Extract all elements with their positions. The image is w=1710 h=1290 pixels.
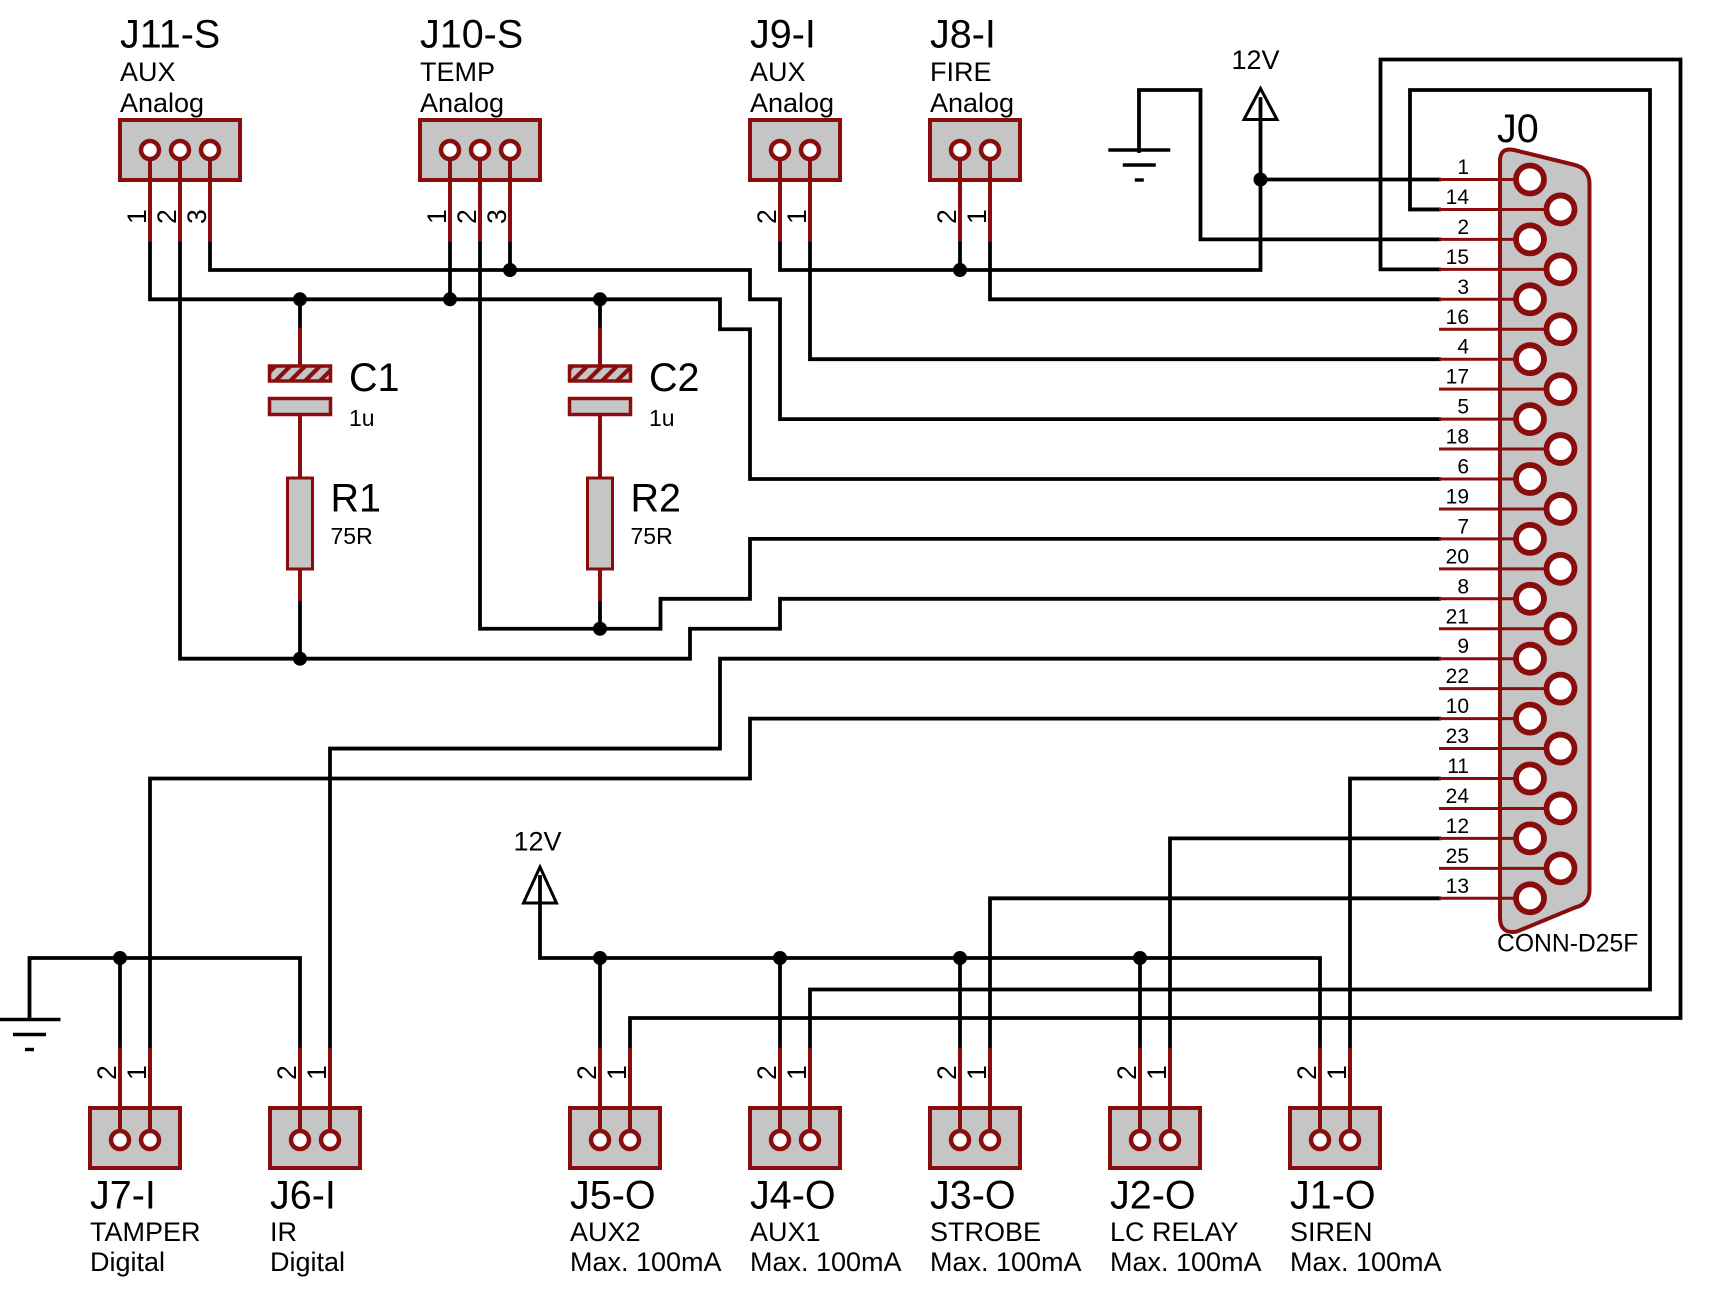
svg-text:J9-I: J9-I bbox=[750, 13, 816, 57]
svg-text:R2: R2 bbox=[631, 477, 682, 521]
svg-text:7: 7 bbox=[1457, 515, 1469, 538]
svg-text:8: 8 bbox=[1457, 575, 1469, 598]
svg-text:1: 1 bbox=[1142, 1065, 1172, 1080]
svg-text:J0: J0 bbox=[1497, 107, 1539, 151]
svg-text:1: 1 bbox=[602, 1065, 632, 1080]
svg-text:1: 1 bbox=[782, 209, 812, 224]
svg-text:25: 25 bbox=[1446, 845, 1469, 868]
svg-text:2: 2 bbox=[932, 1065, 962, 1080]
svg-text:AUX: AUX bbox=[120, 57, 176, 87]
svg-text:IR: IR bbox=[270, 1217, 297, 1247]
svg-text:TEMP: TEMP bbox=[420, 57, 495, 87]
svg-text:17: 17 bbox=[1446, 366, 1469, 389]
svg-text:1u: 1u bbox=[349, 405, 375, 431]
svg-text:1: 1 bbox=[962, 209, 992, 224]
svg-text:Digital: Digital bbox=[90, 1247, 165, 1277]
svg-text:3: 3 bbox=[1457, 276, 1469, 299]
svg-text:Digital: Digital bbox=[270, 1247, 345, 1277]
svg-text:9: 9 bbox=[1457, 635, 1469, 658]
svg-text:15: 15 bbox=[1446, 246, 1469, 269]
svg-text:5: 5 bbox=[1457, 396, 1469, 419]
svg-text:SIREN: SIREN bbox=[1290, 1217, 1373, 1247]
svg-text:C1: C1 bbox=[349, 356, 400, 400]
svg-text:AUX: AUX bbox=[750, 57, 806, 87]
svg-text:2: 2 bbox=[572, 1065, 602, 1080]
svg-text:J10-S: J10-S bbox=[420, 13, 523, 57]
svg-text:2: 2 bbox=[152, 209, 182, 224]
svg-text:1: 1 bbox=[782, 1065, 812, 1080]
svg-text:1: 1 bbox=[302, 1065, 332, 1080]
svg-text:22: 22 bbox=[1446, 665, 1469, 688]
svg-text:2: 2 bbox=[1112, 1065, 1142, 1080]
svg-text:75R: 75R bbox=[631, 523, 673, 549]
svg-text:J8-I: J8-I bbox=[930, 13, 996, 57]
svg-text:J4-O: J4-O bbox=[750, 1174, 836, 1218]
svg-text:1: 1 bbox=[1457, 156, 1469, 179]
svg-text:Analog: Analog bbox=[420, 88, 504, 118]
svg-text:16: 16 bbox=[1446, 306, 1469, 329]
svg-text:CONN-D25F: CONN-D25F bbox=[1497, 931, 1638, 958]
svg-text:3: 3 bbox=[482, 209, 512, 224]
svg-text:2: 2 bbox=[752, 209, 782, 224]
svg-text:75R: 75R bbox=[331, 523, 373, 549]
svg-text:C2: C2 bbox=[649, 356, 700, 400]
svg-text:2: 2 bbox=[92, 1065, 122, 1080]
svg-text:2: 2 bbox=[932, 209, 962, 224]
svg-text:J6-I: J6-I bbox=[270, 1174, 336, 1218]
svg-text:4: 4 bbox=[1457, 336, 1469, 359]
svg-text:J1-O: J1-O bbox=[1290, 1174, 1376, 1218]
svg-text:J5-O: J5-O bbox=[570, 1174, 656, 1218]
svg-text:Analog: Analog bbox=[930, 88, 1014, 118]
svg-text:12: 12 bbox=[1446, 815, 1469, 838]
svg-text:19: 19 bbox=[1446, 485, 1469, 508]
svg-text:LC RELAY: LC RELAY bbox=[1110, 1217, 1239, 1247]
svg-text:J11-S: J11-S bbox=[120, 13, 220, 57]
svg-text:2: 2 bbox=[1457, 216, 1469, 239]
svg-text:10: 10 bbox=[1446, 695, 1469, 718]
svg-text:1: 1 bbox=[122, 209, 152, 224]
svg-text:13: 13 bbox=[1446, 875, 1469, 898]
svg-text:1: 1 bbox=[962, 1065, 992, 1080]
svg-text:2: 2 bbox=[1292, 1065, 1322, 1080]
svg-text:6: 6 bbox=[1457, 456, 1469, 479]
svg-text:Analog: Analog bbox=[120, 88, 204, 118]
svg-text:STROBE: STROBE bbox=[930, 1217, 1041, 1247]
svg-text:20: 20 bbox=[1446, 545, 1469, 568]
svg-text:Max. 100mA: Max. 100mA bbox=[1290, 1247, 1442, 1277]
svg-text:1: 1 bbox=[1322, 1065, 1352, 1080]
svg-text:J3-O: J3-O bbox=[930, 1174, 1016, 1218]
svg-text:2: 2 bbox=[752, 1065, 782, 1080]
svg-text:AUX2: AUX2 bbox=[570, 1217, 641, 1247]
svg-text:R1: R1 bbox=[331, 477, 382, 521]
svg-text:3: 3 bbox=[182, 209, 212, 224]
svg-text:23: 23 bbox=[1446, 725, 1469, 748]
svg-text:Max. 100mA: Max. 100mA bbox=[1110, 1247, 1262, 1277]
svg-text:TAMPER: TAMPER bbox=[90, 1217, 201, 1247]
svg-text:Analog: Analog bbox=[750, 88, 834, 118]
svg-text:1: 1 bbox=[122, 1065, 152, 1080]
svg-text:24: 24 bbox=[1446, 785, 1470, 808]
svg-text:11: 11 bbox=[1447, 755, 1469, 778]
svg-text:2: 2 bbox=[452, 209, 482, 224]
svg-text:1u: 1u bbox=[649, 405, 675, 431]
svg-text:AUX1: AUX1 bbox=[750, 1217, 821, 1247]
svg-text:Max. 100mA: Max. 100mA bbox=[570, 1247, 722, 1277]
svg-text:18: 18 bbox=[1446, 426, 1469, 449]
svg-text:21: 21 bbox=[1446, 605, 1469, 628]
svg-text:J2-O: J2-O bbox=[1110, 1174, 1196, 1218]
svg-text:1: 1 bbox=[422, 209, 452, 224]
svg-text:12V: 12V bbox=[514, 827, 562, 857]
svg-text:J7-I: J7-I bbox=[90, 1174, 156, 1218]
svg-text:Max. 100mA: Max. 100mA bbox=[930, 1247, 1082, 1277]
svg-text:FIRE: FIRE bbox=[930, 57, 992, 87]
svg-text:Max. 100mA: Max. 100mA bbox=[750, 1247, 902, 1277]
svg-text:2: 2 bbox=[272, 1065, 302, 1080]
svg-text:12V: 12V bbox=[1232, 45, 1280, 75]
svg-text:14: 14 bbox=[1446, 186, 1470, 209]
